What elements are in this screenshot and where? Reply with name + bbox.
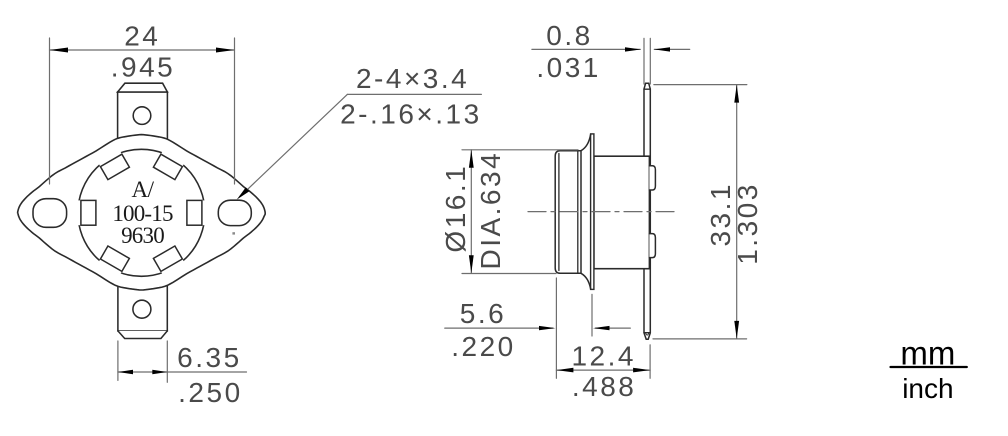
- svg-text:.220: .220: [451, 331, 516, 362]
- svg-text:0.8: 0.8: [546, 20, 592, 51]
- svg-text:Ø16.1: Ø16.1: [440, 164, 471, 253]
- dimension 5.6/.220: [445, 278, 631, 378]
- svg-text:2-4×3.4: 2-4×3.4: [356, 63, 469, 94]
- svg-text:6.35: 6.35: [177, 342, 242, 373]
- front view: centerline dot below right hole: [232, 232, 235, 234]
- side view: cap cup: [555, 151, 581, 274]
- front view: bottom terminal T2: [118, 280, 167, 339]
- dimension 0.8/.031: [532, 38, 690, 84]
- svg-text:24: 24: [124, 21, 160, 52]
- dimension 12.4/.488: [556, 345, 650, 379]
- svg-text:DIA.634: DIA.634: [475, 151, 506, 270]
- side view: terminal/flange strip edge-on: [644, 83, 650, 339]
- svg-text:mm: mm: [900, 335, 955, 372]
- front view: right mounting hole: [218, 200, 251, 225]
- front view: part marking text: [112, 177, 173, 248]
- side view: brim of cap: [591, 134, 594, 290]
- svg-text:.031: .031: [536, 52, 601, 83]
- front view: left mounting hole: [33, 199, 67, 228]
- svg-text:.488: .488: [572, 371, 637, 402]
- side view: center line: [528, 211, 676, 213]
- front view: top terminal T1: [118, 83, 168, 146]
- side view: bottom flare curve: [581, 273, 591, 289]
- side view: body block: [594, 156, 650, 269]
- dimension 33.1/1.303: [653, 85, 747, 339]
- svg-text:A/: A/: [132, 177, 155, 202]
- side view: lower terminal bump: [649, 234, 655, 258]
- svg-text:.250: .250: [178, 377, 243, 408]
- legend mm/inch: [891, 366, 967, 368]
- dimension dia 16.1: [462, 150, 578, 274]
- front view: six cap notches: [74, 148, 209, 277]
- callout 2-4x3.4 leader: [240, 94, 482, 197]
- svg-text:12.4: 12.4: [571, 340, 636, 371]
- svg-text:5.6: 5.6: [460, 298, 506, 329]
- dimension 24/.945: [50, 38, 235, 184]
- front view: central cap circle: [78, 149, 205, 276]
- svg-text:2-.16×.13: 2-.16×.13: [340, 99, 482, 130]
- side view: upper terminal bump: [649, 166, 655, 190]
- svg-text:9630: 9630: [121, 223, 164, 248]
- svg-text:1.303: 1.303: [732, 182, 763, 265]
- svg-text:inch: inch: [902, 373, 953, 404]
- svg-text:.945: .945: [111, 52, 176, 83]
- dimension 6.35/.250: [118, 341, 247, 382]
- front view: mounting flange outline: [18, 135, 266, 290]
- side view: top flare curve: [581, 135, 591, 151]
